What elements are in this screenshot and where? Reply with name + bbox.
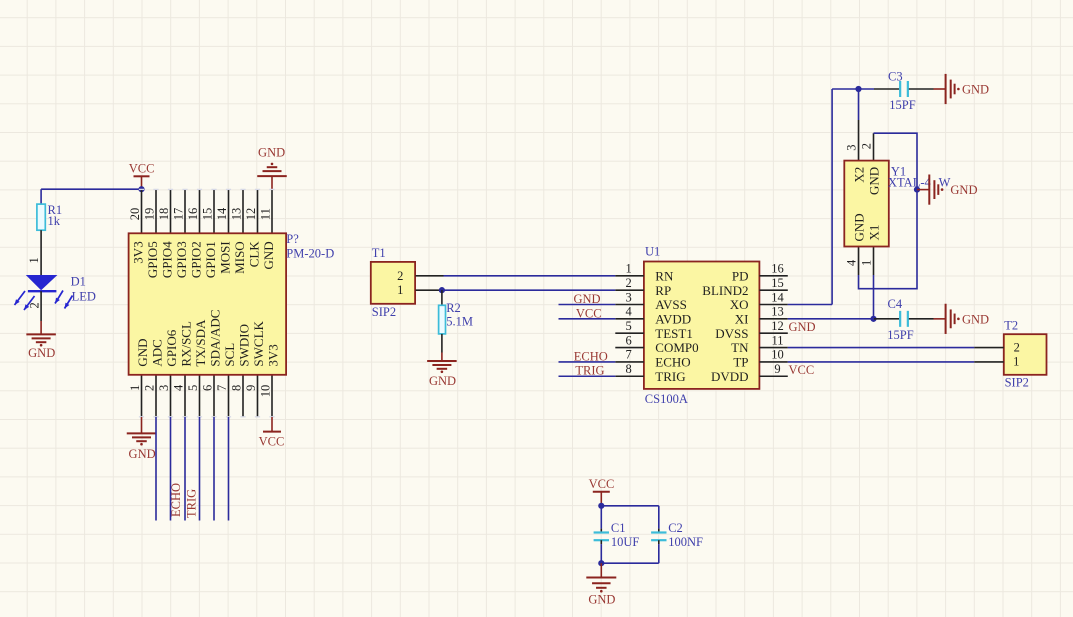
svg-text:XI: XI — [735, 311, 749, 326]
svg-text:VCC: VCC — [589, 477, 615, 491]
svg-text:GND: GND — [261, 241, 276, 269]
svg-text:RX/SCL: RX/SCL — [179, 321, 194, 367]
svg-text:3: 3 — [845, 145, 859, 151]
svg-text:15: 15 — [201, 208, 215, 221]
svg-text:GND: GND — [950, 183, 977, 197]
svg-text:11: 11 — [259, 208, 273, 220]
svg-text:RP: RP — [655, 283, 671, 298]
svg-text:2: 2 — [1014, 341, 1020, 355]
svg-text:1: 1 — [1013, 354, 1019, 368]
svg-text:TN: TN — [731, 340, 749, 355]
svg-text:4: 4 — [845, 259, 859, 266]
svg-text:DVDD: DVDD — [711, 369, 749, 384]
svg-text:GND: GND — [588, 592, 615, 606]
svg-text:VCC: VCC — [576, 306, 602, 320]
svg-text:GND: GND — [573, 292, 600, 306]
svg-text:GPIO2: GPIO2 — [188, 241, 203, 278]
svg-text:TEST1: TEST1 — [655, 326, 693, 341]
svg-text:4: 4 — [625, 305, 632, 319]
svg-text:C1: C1 — [611, 521, 626, 535]
svg-text:C2: C2 — [668, 521, 683, 535]
svg-text:TRIG: TRIG — [184, 489, 198, 518]
svg-text:9: 9 — [244, 385, 258, 391]
svg-text:GPIO6: GPIO6 — [164, 329, 179, 366]
svg-text:XO: XO — [730, 297, 749, 312]
svg-text:15PF: 15PF — [887, 328, 913, 342]
svg-text:X2: X2 — [852, 167, 867, 183]
svg-text:VCC: VCC — [129, 161, 155, 175]
svg-text:12: 12 — [244, 208, 258, 221]
svg-text:XTAL-4: XTAL-4 — [888, 175, 931, 189]
svg-text:PD: PD — [732, 268, 749, 283]
svg-text:TP: TP — [733, 355, 748, 370]
svg-text:10: 10 — [771, 348, 784, 362]
svg-text:17: 17 — [172, 208, 186, 221]
svg-text:8: 8 — [229, 385, 243, 391]
svg-text:6: 6 — [625, 333, 631, 347]
svg-text:TRIG: TRIG — [575, 364, 604, 378]
svg-text:VCC: VCC — [789, 363, 815, 377]
svg-text:3V3: 3V3 — [130, 241, 145, 263]
svg-text:GPIO5: GPIO5 — [145, 241, 160, 278]
svg-text:MISO: MISO — [232, 241, 247, 274]
svg-text:SCL: SCL — [222, 343, 237, 367]
svg-text:TX/SDA: TX/SDA — [193, 319, 208, 367]
svg-text:9: 9 — [774, 362, 780, 376]
svg-text:R2: R2 — [446, 301, 461, 315]
svg-text:10UF: 10UF — [611, 535, 640, 549]
svg-text:2: 2 — [397, 269, 403, 283]
svg-text:SWCLK: SWCLK — [251, 320, 266, 366]
svg-text:3: 3 — [625, 290, 631, 304]
svg-text:GPIO3: GPIO3 — [174, 241, 189, 278]
svg-text:W: W — [939, 175, 951, 189]
svg-text:GND: GND — [962, 312, 989, 326]
svg-text:1: 1 — [625, 262, 631, 276]
svg-text:1: 1 — [397, 283, 403, 297]
svg-text:13: 13 — [230, 208, 244, 221]
svg-text:PM-20-D: PM-20-D — [286, 247, 334, 261]
svg-text:VCC: VCC — [259, 434, 285, 448]
svg-text:GND: GND — [28, 346, 55, 360]
svg-text:14: 14 — [771, 290, 784, 304]
svg-text:20: 20 — [128, 208, 142, 221]
svg-text:GND: GND — [852, 213, 867, 241]
svg-text:U1: U1 — [645, 245, 660, 259]
svg-text:11: 11 — [771, 333, 783, 347]
svg-text:1: 1 — [860, 260, 874, 266]
svg-text:100NF: 100NF — [668, 535, 703, 549]
svg-text:1: 1 — [27, 257, 41, 263]
svg-text:GND: GND — [129, 447, 156, 461]
svg-text:16: 16 — [771, 262, 784, 276]
svg-text:8: 8 — [625, 362, 631, 376]
svg-text:18: 18 — [157, 208, 171, 221]
svg-text:SDA/ADC: SDA/ADC — [208, 310, 223, 367]
svg-text:AVDD: AVDD — [655, 311, 691, 326]
svg-text:ECHO: ECHO — [169, 483, 183, 517]
svg-text:ECHO: ECHO — [655, 355, 690, 370]
svg-text:14: 14 — [215, 207, 229, 220]
svg-text:GND: GND — [789, 320, 816, 334]
svg-text:15PF: 15PF — [889, 98, 915, 112]
svg-text:19: 19 — [143, 208, 157, 221]
svg-text:2: 2 — [860, 143, 874, 149]
svg-text:BLIND2: BLIND2 — [702, 283, 748, 298]
svg-text:RN: RN — [655, 268, 674, 283]
svg-text:6: 6 — [200, 385, 214, 391]
svg-text:12: 12 — [771, 319, 784, 333]
svg-text:P?: P? — [286, 232, 299, 246]
svg-text:ECHO: ECHO — [574, 349, 608, 363]
svg-text:CLK: CLK — [246, 241, 261, 268]
svg-text:1k: 1k — [48, 214, 61, 228]
svg-text:2: 2 — [28, 302, 42, 308]
svg-text:MOSI: MOSI — [217, 241, 232, 274]
svg-text:T2: T2 — [1004, 319, 1018, 333]
svg-text:4: 4 — [171, 384, 185, 391]
svg-text:GND: GND — [258, 146, 285, 160]
svg-text:GND: GND — [867, 167, 882, 195]
svg-text:SWDIO: SWDIO — [237, 324, 252, 367]
svg-text:SIP2: SIP2 — [1005, 376, 1029, 390]
svg-text:2: 2 — [142, 385, 156, 391]
svg-text:TRIG: TRIG — [655, 369, 685, 384]
svg-text:GND: GND — [962, 82, 989, 96]
svg-text:1: 1 — [128, 385, 142, 391]
svg-text:GPIO4: GPIO4 — [159, 241, 174, 278]
svg-text:GPIO1: GPIO1 — [203, 241, 218, 278]
svg-text:C4: C4 — [888, 297, 903, 311]
svg-text:3V3: 3V3 — [266, 344, 281, 366]
svg-text:GND: GND — [429, 374, 456, 388]
svg-text:2: 2 — [625, 276, 631, 290]
svg-text:DVSS: DVSS — [715, 326, 748, 341]
svg-text:COMP0: COMP0 — [655, 340, 698, 355]
svg-text:10: 10 — [258, 385, 272, 398]
svg-text:D1: D1 — [71, 275, 86, 289]
svg-text:15: 15 — [771, 276, 784, 290]
svg-text:ADC: ADC — [150, 339, 165, 366]
svg-text:AVSS: AVSS — [655, 297, 687, 312]
svg-text:T1: T1 — [372, 246, 386, 260]
svg-text:SIP2: SIP2 — [372, 305, 396, 319]
svg-text:X1: X1 — [867, 225, 882, 241]
svg-text:GND: GND — [135, 338, 150, 366]
svg-text:13: 13 — [771, 305, 784, 319]
svg-text:5.1M: 5.1M — [446, 315, 473, 329]
svg-text:7: 7 — [215, 385, 229, 391]
svg-text:16: 16 — [186, 208, 200, 221]
svg-text:CS100A: CS100A — [645, 392, 688, 406]
svg-text:5: 5 — [625, 319, 631, 333]
svg-text:3: 3 — [157, 385, 171, 391]
svg-text:LED: LED — [72, 289, 96, 303]
svg-text:7: 7 — [625, 348, 631, 362]
svg-text:5: 5 — [186, 385, 200, 391]
